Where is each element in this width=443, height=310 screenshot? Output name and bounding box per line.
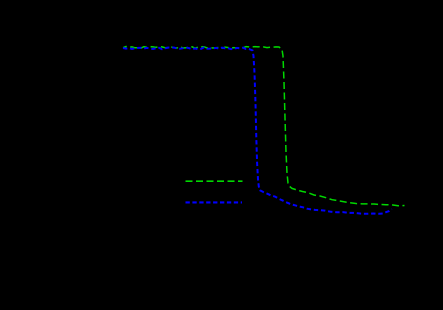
legend sample: blue dashed line [186,201,243,203]
blue data curve (short-dash) [123,47,392,213]
legend sample: green dashed line [186,180,243,182]
green data curve (long-dash) [123,47,405,206]
